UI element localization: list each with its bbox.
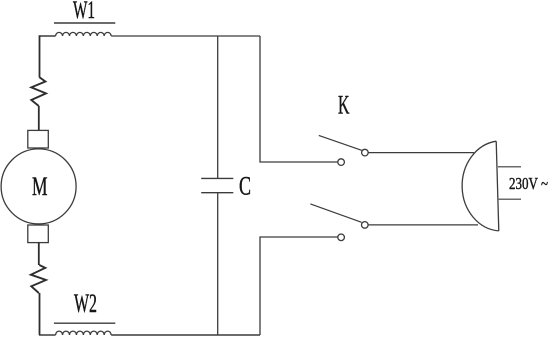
wire brush to resistor R2 (38, 243, 40, 265)
wire bottom rail right of W2 (111, 334, 260, 336)
motor M body (1, 149, 76, 224)
switch K bottom lever (310, 204, 361, 222)
svg-text:C: C (239, 172, 251, 201)
wire top rail (40, 35, 56, 37)
wire capacitor rail lower (217, 193, 219, 335)
resistor R1 (31, 77, 46, 106)
svg-text:W2: W2 (74, 289, 97, 318)
svg-text:230V ~: 230V ~ (509, 174, 548, 193)
svg-text:M: M (32, 172, 48, 201)
switch K bottom fixed contact (338, 234, 345, 241)
switch K bottom pivot contact (362, 222, 369, 229)
wire capacitor rail upper (217, 36, 219, 178)
wire left rail upper (39, 35, 41, 77)
motor M brush top (28, 130, 49, 148)
inductor W1 (56, 32, 112, 36)
svg-text:K: K (338, 91, 350, 120)
label W1 underline (54, 22, 115, 24)
wire left rail lower (39, 293, 41, 335)
plug P1 pin bottom (499, 198, 521, 200)
capacitor C bottom plate (201, 192, 233, 194)
plug P1 flat edge (496, 141, 499, 231)
switch K top lever (319, 135, 362, 150)
plug P1 pin top (498, 166, 521, 168)
switch K top fixed contact (338, 159, 345, 166)
wire resistor R1 to brush (38, 106, 40, 131)
switch K top pivot contact (362, 149, 369, 156)
wire right rail upper (260, 36, 338, 162)
svg-text:W1: W1 (73, 0, 95, 24)
wire top rail right of W1 (111, 35, 260, 37)
plug P1 body (462, 141, 499, 231)
motor M brush bottom (28, 225, 49, 243)
wire right rail lower (260, 237, 338, 335)
wire bottom rail (39, 334, 56, 336)
label W2 underline (54, 322, 115, 324)
wire switch K top to plug (368, 152, 474, 154)
wire switch K bottom to plug (368, 224, 478, 226)
capacitor C top plate (201, 177, 233, 179)
inductor W2 (56, 331, 112, 335)
resistor R2 (31, 265, 46, 293)
